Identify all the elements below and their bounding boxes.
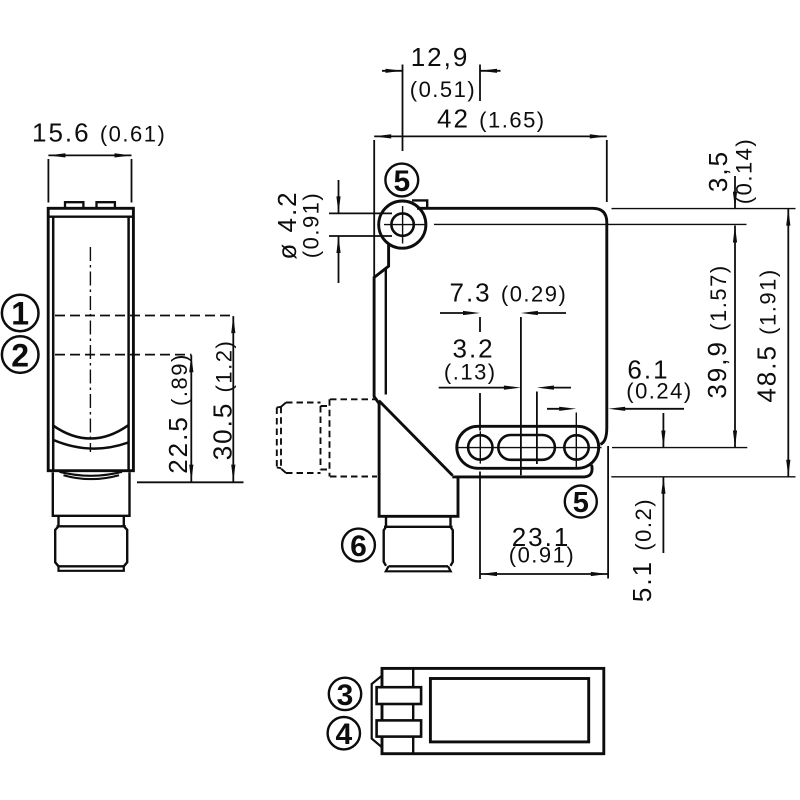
svg-text:(0.91): (0.91) bbox=[299, 192, 324, 258]
svg-text:(.13): (.13) bbox=[444, 360, 497, 385]
svg-text:15.6 (0.61): 15.6 (0.61) bbox=[32, 118, 166, 148]
front window arc lower bbox=[54, 440, 129, 449]
plug barrel left view bbox=[55, 526, 58, 566]
tab left on sensor top bbox=[65, 202, 83, 208]
svg-text:39,9 (1.57): 39,9 (1.57) bbox=[702, 264, 732, 398]
dimension 5.1 arrows bbox=[662, 413, 664, 553]
svg-text:48.5 (1.91): 48.5 (1.91) bbox=[752, 268, 782, 402]
dimension line 23.1 bbox=[480, 573, 608, 575]
dimension line dia 4.2 bbox=[338, 180, 340, 283]
dimension line 12,9 outside arrows bbox=[382, 70, 501, 72]
optical axis 1 dashed bbox=[55, 315, 234, 317]
svg-text:2: 2 bbox=[11, 337, 29, 373]
dimension line 22.5 bbox=[190, 355, 192, 481]
extension line x536.9 bbox=[536, 392, 538, 465]
connector collar left view bbox=[53, 472, 130, 516]
plug neck left view bbox=[59, 517, 124, 527]
extension line 42 left bbox=[373, 140, 375, 277]
lug tab bbox=[412, 200, 427, 208]
inner left line bbox=[385, 268, 387, 395]
front window arc upper bbox=[53, 425, 129, 439]
hole vertical cross right bbox=[575, 413, 577, 470]
svg-text:3,5: 3,5 bbox=[703, 150, 733, 192]
svg-text:5.1 (0.2): 5.1 (0.2) bbox=[627, 498, 657, 602]
optical axis 2 dashed bbox=[55, 354, 192, 356]
callout circle 2 bbox=[2, 336, 39, 373]
body left edge and housing bbox=[374, 244, 458, 517]
sensor body outline left view bbox=[48, 208, 133, 470]
svg-text:1: 1 bbox=[11, 296, 29, 332]
extension line 12,9 left bbox=[402, 65, 404, 152]
svg-text:3: 3 bbox=[337, 679, 354, 712]
callout circle 4 bbox=[328, 717, 360, 749]
callout circle 5 bottom bbox=[565, 486, 597, 518]
dimension line 42 bbox=[374, 135, 607, 137]
bottom view side bracket bbox=[372, 676, 382, 748]
hole vertical cross left bbox=[479, 431, 481, 463]
svg-text:4: 4 bbox=[335, 718, 352, 751]
holes centerline horizontal bbox=[458, 447, 602, 449]
svg-text:42 (1.65): 42 (1.65) bbox=[437, 104, 546, 134]
slot obround bbox=[498, 435, 555, 460]
mounting pill bottom bbox=[457, 426, 599, 468]
mounting lug top bbox=[379, 201, 426, 248]
dimension line 48.5 bbox=[787, 209, 789, 477]
centerline left view bbox=[89, 247, 91, 452]
svg-text:30.5 (1.2): 30.5 (1.2) bbox=[208, 340, 238, 461]
callout circle 6 bbox=[342, 529, 375, 562]
extension line 23.1 right bbox=[607, 446, 609, 579]
reference line bottom holes bbox=[612, 447, 747, 449]
extension line right 15.6 bbox=[131, 159, 133, 203]
phantom connector dashed bbox=[277, 399, 377, 476]
bottom view outer body bbox=[382, 668, 604, 753]
inner right line bbox=[127, 217, 130, 470]
svg-text:5: 5 bbox=[393, 165, 410, 198]
dimension line 7.3 bbox=[440, 312, 566, 314]
plug 6 bbox=[386, 516, 451, 527]
extension line 42 right bbox=[606, 140, 608, 202]
extension line x520.9 bbox=[520, 317, 522, 475]
svg-text:5: 5 bbox=[573, 487, 589, 519]
svg-text:7.3 (0.29): 7.3 (0.29) bbox=[450, 278, 568, 308]
body bottom edge bbox=[452, 465, 592, 477]
dimension line 6.1 bbox=[547, 408, 684, 410]
svg-text:(0.24): (0.24) bbox=[626, 379, 692, 404]
extension line left 15.6 bbox=[47, 159, 49, 203]
hole centerline extension right bbox=[434, 223, 747, 225]
svg-text:(0.91): (0.91) bbox=[509, 543, 575, 568]
tab right on sensor top bbox=[97, 202, 115, 208]
dimension line 15.6 bbox=[48, 154, 131, 156]
svg-text:6: 6 bbox=[350, 530, 367, 563]
callout circle 1 bbox=[2, 295, 39, 332]
inner top line bbox=[50, 215, 133, 217]
svg-text:12,9: 12,9 bbox=[411, 42, 470, 72]
dimension line 30.5 bbox=[232, 316, 234, 482]
reference line top edge right bbox=[612, 208, 796, 210]
dimension ref line bottom left view bbox=[137, 481, 244, 483]
extension line x480 bbox=[479, 317, 481, 431]
bottom view inner window bbox=[430, 679, 588, 742]
inner left line bbox=[52, 217, 55, 470]
reference line body bottom bbox=[611, 476, 795, 478]
mounting hole top bbox=[391, 213, 413, 235]
button 4 bbox=[377, 720, 422, 736]
button 3 bbox=[377, 687, 422, 704]
chamfer diagonal outer bbox=[379, 401, 453, 476]
dimension 3,5 arrow bbox=[734, 176, 736, 209]
svg-text:(0.14): (0.14) bbox=[732, 138, 757, 204]
svg-text:(0.51): (0.51) bbox=[410, 77, 476, 102]
bottom view step line bbox=[412, 668, 414, 753]
extension line 12,9 right bbox=[479, 65, 481, 102]
mounting hole bottom right bbox=[564, 435, 588, 459]
dimension line 3.2 bbox=[439, 387, 571, 389]
dimension line 39,9 bbox=[734, 226, 736, 448]
extension lines dia 4.2 bbox=[329, 213, 392, 236]
mounting hole bottom left bbox=[468, 435, 492, 459]
callout circle 3 bbox=[329, 678, 361, 710]
callout circle 5 top bbox=[385, 164, 418, 197]
plug flange left view bbox=[59, 565, 124, 567]
hole cross top bbox=[384, 206, 426, 244]
body outline top and right bbox=[417, 208, 607, 444]
svg-text:ø 4.2: ø 4.2 bbox=[272, 190, 302, 259]
svg-text:22.5 (.89): 22.5 (.89) bbox=[163, 353, 193, 474]
